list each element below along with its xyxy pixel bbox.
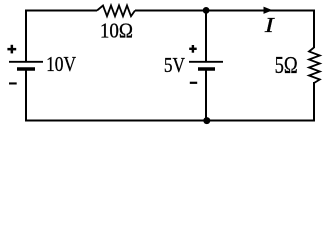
node A: top junction dot	[203, 7, 210, 14]
wire: middle branch upper segment (top junction to battery V2)	[205, 11, 207, 62]
resistor R2 5ohm (vertical zigzag, right wire)	[309, 48, 320, 84]
svg-text:5Ω: 5Ω	[275, 52, 298, 79]
svg-text:10Ω: 10Ω	[100, 20, 133, 43]
wire: bottom side, right segment (bottom junction to bottom-right corner)	[206, 82, 314, 121]
battery V2 5V: short negative plate	[198, 67, 215, 70]
resistor R1 10ohm (horizontal zigzag, top wire)	[97, 6, 135, 17]
battery V1 10V: short negative plate	[17, 67, 35, 70]
wire: top side, left segment (from top-left corner to resistor R1)	[26, 11, 97, 63]
label: plus sign of battery V2	[189, 45, 197, 53]
label: plus sign of battery V1	[7, 45, 16, 54]
wire: top side, right segment (from resistor R1 to top-right corner)	[135, 11, 314, 49]
node B: bottom junction dot	[203, 117, 210, 124]
svg-text:5V: 5V	[164, 54, 185, 77]
label: minus sign of battery V1	[9, 82, 17, 84]
wire: middle branch lower segment (battery V2 to bottom junction)	[205, 69, 207, 121]
battery V1 10V: long positive plate	[9, 61, 43, 63]
wire: left side lower segment (battery V1 to bottom-left corner)	[26, 69, 206, 121]
label: minus sign of battery V2	[190, 82, 197, 84]
svg-text:10V: 10V	[46, 54, 76, 77]
battery V2 5V: long positive plate	[189, 61, 223, 63]
arrow: current direction I on top wire	[264, 7, 272, 13]
svg-text:I: I	[264, 14, 276, 38]
